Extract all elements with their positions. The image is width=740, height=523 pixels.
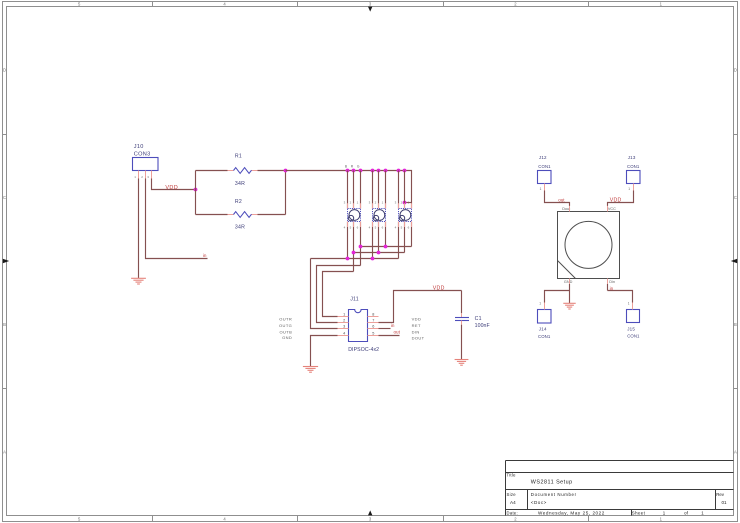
LED driver 2 (RGB LED symbol) (373, 209, 386, 222)
J12 pin stub and number (540, 184, 545, 192)
LED pin stubs (570, 206, 608, 284)
wire net VDD from J10 pin3 (152, 179, 196, 190)
svg-text:1: 1 (539, 302, 541, 306)
svg-text:Date:: Date: (507, 510, 519, 515)
LED pin names Dout VCC GND Din (562, 207, 616, 284)
wire R1 row (196, 170, 286, 172)
svg-text:Title: Title (507, 473, 517, 478)
svg-text:CON1: CON1 (538, 164, 551, 169)
svg-text:01: 01 (722, 500, 728, 505)
wire J11 pin7 to VDD rail (379, 291, 462, 323)
svg-text:in: in (391, 323, 395, 328)
ground at LED (563, 303, 575, 309)
J11 pin stubs (338, 317, 379, 336)
J11 pin numbers (343, 312, 374, 335)
J11 left pin net names OUTR OUTG OUTB GND (279, 317, 292, 341)
wires rail to LED3 top pins (399, 171, 405, 209)
svg-text:GND: GND (564, 280, 573, 284)
junction at R1 right end (284, 169, 288, 173)
svg-text:J12: J12 (539, 155, 547, 160)
svg-text:34R: 34R (235, 224, 245, 230)
svg-text:C: C (3, 195, 6, 200)
svg-text:C: C (734, 195, 737, 200)
junctions on anode rail (346, 169, 407, 173)
wire J11 pin5 net out (379, 335, 400, 337)
resistor R1 34R (234, 154, 252, 188)
IC J11 DIPSOC-4x2 (348, 297, 379, 354)
svg-text:J13: J13 (628, 155, 636, 160)
wire bus3 to J11 pin 3 (311, 259, 338, 329)
LED driver pin stubs (348, 203, 412, 227)
svg-text:Din: Din (609, 280, 615, 284)
capacitor C1 100nF (455, 316, 490, 329)
svg-text:Document Number: Document Number (531, 492, 577, 497)
svg-text:G: G (357, 164, 360, 168)
wire cathode bus 2 (354, 252, 405, 254)
svg-text:J11: J11 (350, 297, 359, 303)
svg-text:34R: 34R (235, 181, 245, 187)
svg-text:VCC: VCC (608, 207, 616, 211)
ground at C1 (455, 360, 469, 366)
wire cathode bus 3 (311, 258, 399, 260)
wire J15 to LED Din (net in) (608, 284, 633, 303)
svg-text:VDD: VDD (433, 285, 445, 291)
wire VDD down to C1 (461, 291, 463, 318)
J15 pin stub and number (628, 302, 633, 310)
svg-text:Sheet: Sheet (632, 510, 646, 515)
svg-text:Wednesday, May 25, 2022: Wednesday, May 25, 2022 (538, 510, 605, 515)
svg-text:A: A (3, 449, 6, 454)
wires rail to LED2 top pins (373, 171, 386, 209)
svg-text:R1: R1 (235, 154, 242, 160)
LED driver 2 (RGB LED symbol) pin numbers (369, 201, 384, 230)
connector J14 CON1 (538, 310, 552, 340)
J13 pin stub and number (628, 184, 633, 192)
svg-text:<Doc>: <Doc> (531, 500, 547, 505)
wire net in from J10 pin2 (146, 179, 208, 259)
svg-text:J15: J15 (627, 327, 635, 332)
svg-text:DIPSOC-4x2: DIPSOC-4x2 (348, 347, 379, 353)
svg-text:WS2811 Setup: WS2811 Setup (531, 479, 573, 485)
svg-text:1: 1 (628, 302, 630, 306)
connector J12 CON1 (538, 155, 552, 183)
svg-text:DOUT: DOUT (412, 336, 425, 341)
wire cathode bus 1 (361, 246, 412, 248)
svg-text:1: 1 (628, 187, 630, 191)
connector J10 CON3 (133, 144, 159, 171)
svg-text:out: out (558, 197, 565, 202)
LED driver 1 (RGB LED symbol) pin numbers (344, 201, 359, 230)
connector J15 CON1 (627, 310, 641, 339)
net labels B R G above rail (345, 164, 360, 168)
wire C1 to ground (461, 321, 463, 360)
wire J11 pin 4 to ground (311, 336, 338, 367)
svg-text:in: in (610, 286, 614, 291)
svg-text:100nF: 100nF (475, 323, 490, 329)
svg-text:OUTB: OUTB (279, 329, 292, 334)
wire right vertical of R1 R2 pair (285, 171, 287, 215)
svg-text:1: 1 (540, 187, 542, 191)
wires rail to LED1 top pins (348, 171, 361, 209)
svg-text:OUTG: OUTG (279, 323, 292, 328)
svg-text:GND: GND (282, 335, 292, 340)
LED driver 3 (RGB LED symbol) pin numbers (395, 201, 410, 230)
svg-text:CON1: CON1 (627, 334, 640, 339)
connector J13 CON1 (627, 155, 641, 183)
wire anode rail to LED drivers (286, 171, 412, 209)
svg-text:J10: J10 (134, 144, 144, 150)
wire J12 to LED Dout (net out) (545, 191, 570, 206)
svg-text:CON1: CON1 (627, 164, 640, 169)
title block (506, 461, 734, 516)
svg-text:CON1: CON1 (538, 334, 551, 339)
J10 pin stubs and pin numbers 1 2 3 (134, 171, 151, 180)
svg-text:R2: R2 (235, 199, 242, 205)
LED driver 3 (RGB LED symbol) (399, 209, 412, 222)
ground at J11 (303, 367, 318, 373)
svg-text:Rev: Rev (716, 492, 725, 497)
svg-text:CON3: CON3 (134, 151, 151, 157)
wire bus2 branch to J11 pin 1 (323, 272, 354, 317)
svg-text:VDD: VDD (165, 185, 178, 191)
J11 right pin names VDD RET DIN DOUT (412, 317, 425, 341)
resistor R2 34R (234, 199, 252, 230)
wires LED1 bottom pins to buses (348, 222, 361, 272)
ground at J10 (131, 278, 146, 284)
svg-text:7: 7 (372, 318, 374, 322)
junctions bus 2 (352, 251, 381, 255)
wire J13 to LED VCC (net VDD) (608, 191, 634, 206)
svg-text:D: D (734, 68, 737, 73)
svg-text:DIN: DIN (412, 329, 420, 334)
svg-text:VDD: VDD (610, 197, 622, 203)
junction on rail jog (403, 201, 407, 205)
svg-text:A: A (734, 449, 737, 454)
wire R2 row (196, 214, 286, 216)
svg-text:in: in (203, 253, 207, 258)
WS2811 5050 LED package (558, 212, 620, 279)
junction on VDD at resistor divider (194, 188, 198, 192)
junctions bus 3 (346, 257, 375, 261)
wire left vertical of R1 R2 pair (195, 171, 197, 215)
wires LED3 bottom pins to buses (399, 222, 412, 259)
svg-text:C1: C1 (475, 316, 482, 322)
svg-text:B: B (734, 322, 737, 327)
svg-text:A4: A4 (510, 500, 516, 505)
svg-text:2: 2 (343, 318, 345, 322)
svg-text:OUTR: OUTR (279, 317, 292, 322)
J14 pin stub and number (539, 302, 544, 310)
svg-text:1: 1 (343, 312, 345, 316)
svg-text:6: 6 (372, 324, 374, 328)
wire J14 to LED GND (545, 284, 570, 303)
svg-text:Size: Size (507, 492, 517, 497)
svg-text:3: 3 (343, 324, 345, 328)
svg-text:out: out (394, 329, 401, 334)
wire J11 pin6 net in (379, 328, 391, 330)
svg-text:RET: RET (412, 323, 421, 328)
svg-text:B: B (3, 322, 6, 327)
LED driver 1 (RGB LED symbol) (348, 209, 361, 222)
wire bus1 branch to J11 pin 2 (317, 266, 361, 323)
svg-text:5: 5 (372, 331, 374, 335)
svg-text:J14: J14 (539, 326, 547, 331)
svg-text:D: D (3, 68, 6, 73)
wire J10 pin1 to ground (138, 179, 140, 279)
junctions bus 1 (359, 245, 388, 249)
svg-text:VDD: VDD (412, 317, 422, 322)
svg-text:4: 4 (343, 331, 345, 335)
svg-text:8: 8 (372, 312, 374, 316)
wires LED2 bottom pins to buses (373, 222, 386, 259)
